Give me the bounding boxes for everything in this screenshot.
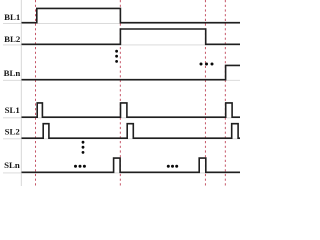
waveform BLn [22, 65, 241, 79]
timeline marker t2 (red dashed) [119, 0, 121, 186]
waveform BL2 [22, 29, 241, 44]
waveform SL1 [22, 103, 241, 117]
svg-text:BL2: BL2 [4, 34, 21, 44]
vertical ellipsis between BL2 and BLn [115, 50, 118, 53]
svg-text:BL1: BL1 [4, 12, 20, 22]
waveform SL2 [22, 124, 241, 139]
gridline row BL2 [3, 44, 240, 46]
waveform BL1 [22, 8, 241, 22]
vertical ellipsis between SL2 and SLn [82, 141, 85, 144]
horizontal ellipsis in BLn row [200, 63, 203, 66]
gridline row SL2 [3, 138, 240, 140]
svg-text:BLn: BLn [4, 68, 21, 78]
gridline row SL1 [3, 117, 240, 119]
timeline marker t4 (red dashed) [224, 0, 226, 186]
horizontal ellipsis 1 in SLn row [74, 165, 77, 168]
timeline marker t3 (red dashed) [204, 0, 206, 186]
gridline row SLn [3, 172, 240, 174]
axis vertical [20, 0, 22, 186]
waveform SLn [22, 158, 241, 172]
svg-text:SL2: SL2 [5, 127, 21, 137]
svg-text:SLn: SLn [4, 160, 20, 170]
gridline row BL1 [3, 22, 240, 24]
gridline row BLn [3, 79, 240, 81]
timeline marker t1 (red dashed) [35, 0, 37, 186]
svg-text:SL1: SL1 [5, 105, 20, 115]
horizontal ellipsis 2 in SLn row [167, 165, 170, 168]
